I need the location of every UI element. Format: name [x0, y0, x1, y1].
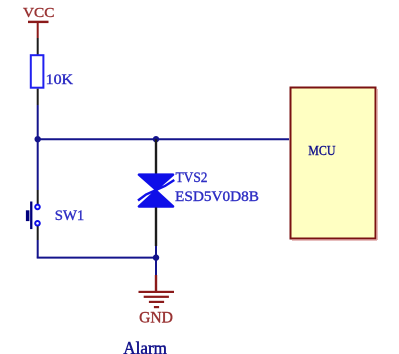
- wire: TVS to node B: [155, 246, 157, 258]
- sheet symbol MCU: [291, 88, 378, 241]
- svg-text:VCC: VCC: [23, 6, 55, 21]
- wire: node B to GND: [155, 258, 157, 275]
- resistor top pin: [37, 38, 39, 55]
- resistor bottom pin: [37, 89, 39, 105]
- svg-text:10K: 10K: [46, 72, 74, 88]
- SW1 bottom pin: [37, 226, 39, 240]
- TVS top pin: [155, 139, 157, 174]
- junction node at TVS: [153, 136, 159, 142]
- resistor body (10K): [31, 55, 44, 87]
- svg-text:MCU: MCU: [308, 144, 335, 159]
- wire: bottom horizontal to node B: [37, 257, 156, 259]
- svg-text:SW1: SW1: [55, 208, 85, 224]
- svg-text:ESD5V0D8B: ESD5V0D8B: [175, 189, 259, 205]
- junction node A: [35, 136, 41, 142]
- svg-text:GND: GND: [139, 310, 173, 327]
- switch SW1 symbol: [26, 202, 40, 230]
- SW1 top pin: [37, 190, 39, 204]
- TVS diode TVS2 symbol: [138, 175, 174, 207]
- power symbol VCC: [28, 21, 49, 38]
- wire: node A down to SW1: [37, 139, 39, 190]
- wire: resistor to node A: [37, 105, 39, 139]
- junction node B: [153, 254, 159, 260]
- TVS bottom pin: [155, 208, 157, 247]
- svg-text:Alarm: Alarm: [123, 338, 167, 354]
- ground symbol GND: [139, 275, 175, 308]
- wire: node A to MCU (horizontal): [38, 138, 289, 140]
- wire: SW1 to bottom corner: [37, 240, 39, 258]
- svg-text:TVS2: TVS2: [176, 170, 208, 186]
